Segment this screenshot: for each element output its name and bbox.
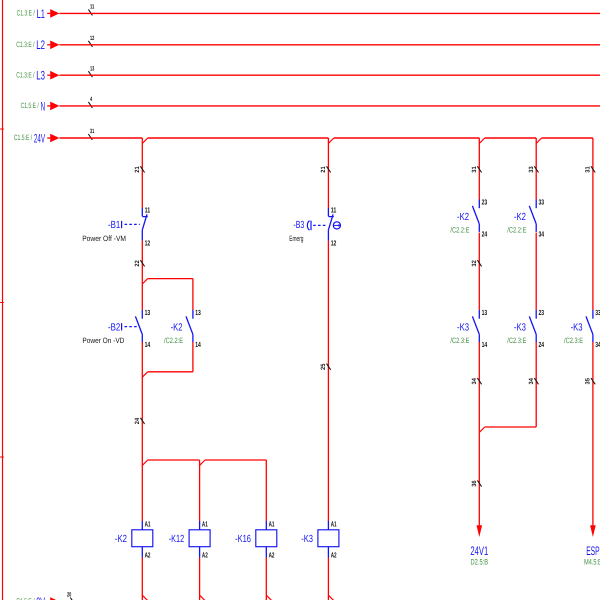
svg-text:-K16: -K16 — [235, 534, 251, 545]
svg-text:Power Off -VM: Power Off -VM — [82, 234, 126, 243]
svg-text:14: 14 — [482, 340, 488, 349]
svg-text:13: 13 — [90, 65, 95, 72]
svg-text:-K2: -K2 — [115, 534, 127, 545]
svg-text:A2: A2 — [145, 551, 151, 560]
svg-text:13: 13 — [145, 308, 151, 317]
svg-text:33: 33 — [539, 197, 545, 206]
svg-text:13: 13 — [195, 308, 201, 317]
svg-text:-B3: -B3 — [293, 220, 304, 231]
svg-text:C1.3:E /: C1.3:E / — [16, 70, 35, 79]
svg-text:-K3: -K3 — [301, 534, 313, 545]
svg-text:L2: L2 — [36, 38, 45, 52]
svg-text:/C2.3:E: /C2.3:E — [450, 336, 469, 345]
svg-text:-K3: -K3 — [514, 322, 526, 333]
svg-text:34: 34 — [471, 378, 478, 385]
svg-text:12: 12 — [145, 238, 151, 247]
svg-text:22: 22 — [134, 260, 141, 267]
svg-text:C1.5:E /: C1.5:E / — [21, 101, 40, 110]
svg-text:D2.5:B: D2.5:B — [471, 558, 489, 567]
svg-text:21: 21 — [320, 166, 327, 173]
svg-text:33: 33 — [528, 166, 535, 173]
svg-text:/C2.2:E: /C2.2:E — [164, 336, 183, 345]
svg-text:24: 24 — [482, 229, 488, 238]
svg-text:-B2: -B2 — [108, 322, 120, 333]
svg-text:32: 32 — [471, 260, 478, 267]
svg-text:12: 12 — [90, 35, 95, 42]
svg-text:-K3: -K3 — [457, 322, 469, 333]
svg-text:31: 31 — [585, 166, 592, 173]
svg-text:Power On -VD: Power On -VD — [82, 336, 124, 345]
svg-text:14: 14 — [195, 340, 201, 349]
svg-text:23: 23 — [539, 308, 545, 317]
svg-text:-K2: -K2 — [457, 212, 469, 223]
svg-text:21: 21 — [134, 166, 141, 173]
svg-text:-K3: -K3 — [571, 322, 583, 333]
svg-text:23: 23 — [482, 197, 488, 206]
svg-text:A2: A2 — [331, 551, 337, 560]
svg-text:N: N — [41, 99, 45, 113]
svg-text:20: 20 — [67, 592, 72, 599]
svg-text:36: 36 — [471, 480, 478, 487]
svg-text:33: 33 — [595, 308, 600, 317]
svg-text:31: 31 — [471, 166, 478, 173]
svg-text:24: 24 — [539, 340, 545, 349]
svg-text:/C2.3:E: /C2.3:E — [564, 336, 583, 345]
svg-text:25: 25 — [320, 363, 327, 370]
svg-text:C1.5:E /: C1.5:E / — [14, 133, 33, 142]
svg-text:/C2.3:E: /C2.3:E — [507, 336, 526, 345]
svg-text:24V1: 24V1 — [470, 544, 488, 558]
svg-text:34: 34 — [595, 340, 600, 349]
svg-text:/C2.2:E: /C2.2:E — [450, 226, 469, 235]
svg-text:24: 24 — [134, 417, 141, 424]
svg-text:L1: L1 — [37, 7, 45, 21]
svg-text:0V: 0V — [36, 595, 45, 600]
svg-text:Emerg: Emerg — [289, 234, 303, 243]
svg-text:24V: 24V — [34, 131, 45, 145]
svg-text:ESP: ESP — [586, 544, 599, 558]
svg-text:L3: L3 — [36, 69, 45, 83]
svg-text:M4.5:B: M4.5:B — [584, 558, 600, 567]
svg-text:A1: A1 — [145, 519, 151, 528]
svg-text:13: 13 — [482, 308, 488, 317]
svg-text:31: 31 — [90, 128, 95, 135]
svg-text:34: 34 — [539, 229, 545, 238]
svg-text:A1: A1 — [269, 519, 275, 528]
svg-text:C1.3:E /: C1.3:E / — [17, 9, 36, 18]
svg-text:12: 12 — [331, 238, 337, 247]
svg-text:-K2: -K2 — [514, 212, 526, 223]
svg-text:-K2: -K2 — [171, 322, 183, 333]
svg-text:34: 34 — [528, 378, 535, 385]
svg-text:A2: A2 — [269, 551, 275, 560]
svg-text:11: 11 — [331, 205, 337, 214]
svg-text:-K12: -K12 — [169, 534, 185, 545]
svg-text:35: 35 — [585, 378, 592, 385]
svg-text:/C2.2:E: /C2.2:E — [507, 226, 526, 235]
svg-text:A1: A1 — [331, 519, 337, 528]
svg-text:11: 11 — [90, 4, 95, 11]
svg-text:-B1: -B1 — [108, 220, 120, 231]
svg-text:14: 14 — [145, 340, 151, 349]
svg-text:A1: A1 — [202, 519, 208, 528]
svg-text:A2: A2 — [202, 551, 208, 560]
svg-text:11: 11 — [145, 205, 151, 214]
svg-text:4: 4 — [90, 96, 93, 103]
svg-text:C1.3:E /: C1.3:E / — [16, 40, 35, 49]
